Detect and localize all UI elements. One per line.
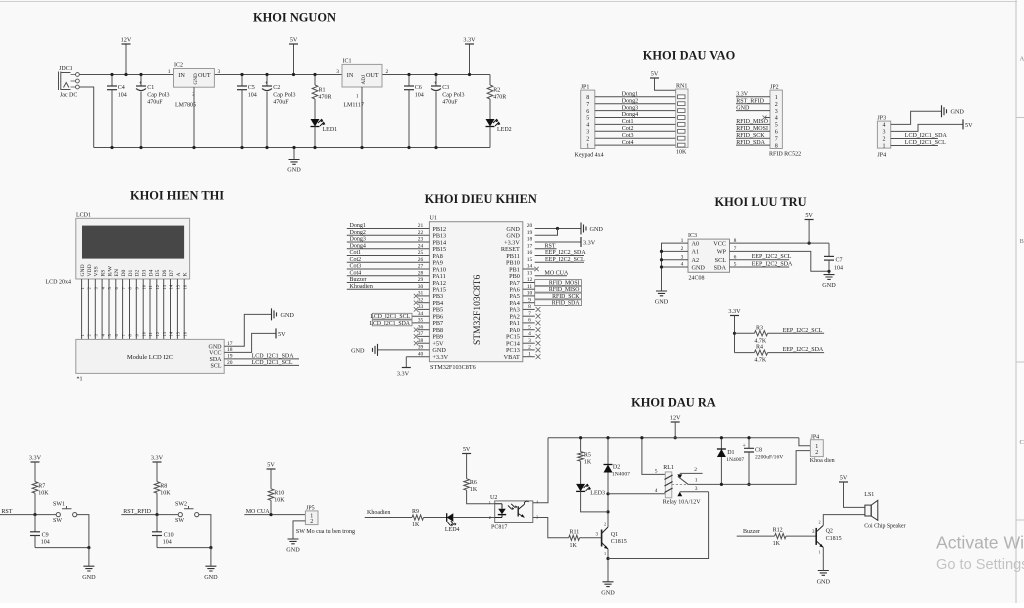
svg-text:3.3V: 3.3V	[29, 455, 42, 462]
LCD1 display module	[76, 213, 190, 280]
wire U1 GND pin 20	[535, 228, 581, 230]
capacitor C4 104	[107, 73, 127, 149]
wire LCD pin 16 to I2C module	[183, 279, 185, 339]
port RFID_SDA to U1	[523, 300, 582, 307]
wire U2 pin4 to bus	[533, 438, 548, 503]
svg-text:R4: R4	[756, 345, 763, 351]
svg-text:470R: 470R	[493, 95, 506, 101]
svg-text:Buzzer: Buzzer	[350, 277, 367, 283]
svg-text:Cot1: Cot1	[622, 119, 634, 125]
ground symbol module	[272, 308, 295, 320]
wire relay pin4	[608, 493, 665, 495]
wire JP2 net GND	[736, 110, 770, 112]
ground symbol JP5	[288, 539, 299, 544]
svg-text:3: 3	[336, 69, 339, 75]
wire LCD pin 5 to I2C module	[108, 279, 110, 339]
svg-text:ADJ: ADJ	[361, 75, 367, 85]
svg-text:GND: GND	[951, 109, 965, 116]
port LCD_I2C1_SDA to U1	[369, 320, 429, 327]
svg-text:104: 104	[415, 93, 424, 99]
wire Q1 emitter down	[607, 549, 609, 582]
svg-text:4: 4	[883, 123, 886, 129]
svg-text:JP5: JP5	[306, 505, 315, 511]
ground symbol Q1	[603, 582, 614, 587]
svg-text:EEP_I2C2_SDA: EEP_I2C2_SDA	[545, 250, 586, 256]
port RFID_MISO to U1	[523, 286, 582, 293]
wire C10 bottom to ground	[157, 547, 211, 549]
resistor R9 1K	[412, 509, 424, 528]
ground symbol C7	[824, 275, 835, 280]
wire IC3 SDA net EEP_I2C2_SDA	[730, 266, 790, 268]
wire module GND	[224, 314, 271, 346]
svg-text:1: 1	[168, 69, 171, 75]
svg-text:1K: 1K	[570, 543, 578, 549]
wire top rail segment 2	[214, 74, 342, 76]
svg-text:D1: D1	[727, 450, 734, 456]
wire Q2 collector to speaker	[823, 515, 865, 526]
svg-text:RS: RS	[101, 270, 107, 277]
svg-text:GND: GND	[209, 344, 223, 350]
svg-text:D3: D3	[142, 269, 148, 276]
wire LCD pin 1 to I2C module	[81, 279, 83, 339]
wire IC3 address pins to ground	[662, 243, 689, 291]
svg-text:KHOI DAU RA: KHOI DAU RA	[631, 396, 716, 410]
transistor Q2 C1815	[816, 520, 841, 555]
wire JP1 net Dong2	[595, 103, 677, 105]
svg-text:Dong4: Dong4	[350, 243, 366, 249]
svg-text:OUT: OUT	[366, 72, 379, 79]
wire R9 to LED4	[424, 517, 447, 519]
wire U1 left net Dong1	[347, 228, 430, 230]
svg-text:R3: R3	[756, 325, 763, 331]
svg-text:EEP_I2C2_SDA: EEP_I2C2_SDA	[783, 347, 824, 353]
no-connect U1 right pin 6	[523, 322, 535, 324]
svg-text:Cot4: Cot4	[622, 140, 634, 146]
wire U1 left net Dong3	[347, 241, 430, 243]
svg-text:GND: GND	[817, 579, 831, 586]
svg-text:R10: R10	[274, 490, 284, 496]
wire LCD pin 13 to I2C module	[163, 279, 165, 339]
svg-text:5V: 5V	[651, 71, 659, 78]
svg-text:SDA: SDA	[209, 357, 222, 363]
svg-text:Cot4: Cot4	[350, 270, 362, 276]
optocoupler U2 PC817	[489, 495, 539, 530]
svg-text:RFID_SCK: RFID_SCK	[736, 133, 765, 139]
svg-text:14: 14	[169, 284, 174, 289]
svg-text:C2: C2	[273, 85, 280, 91]
svg-text:RFID_SDA: RFID_SDA	[552, 301, 581, 307]
wire U1 PB0 net MO CUA	[535, 275, 567, 277]
svg-text:RFID_MISO: RFID_MISO	[736, 119, 768, 125]
wire U1 GND pin 39	[378, 349, 430, 351]
svg-text:12: 12	[155, 284, 160, 289]
resistor R4 4.7K	[735, 345, 768, 364]
wire IC3 WP to ground	[730, 251, 830, 271]
svg-text:D2: D2	[135, 269, 141, 276]
svg-text:104: 104	[248, 93, 257, 99]
svg-text:EEP_I2C2_SCL: EEP_I2C2_SCL	[752, 254, 792, 260]
capacitor C3 Cap Pol3 470uF	[431, 73, 464, 149]
svg-text:C: C	[1020, 439, 1024, 446]
wire U1 left net Cot2	[347, 261, 430, 263]
svg-text:SDA: SDA	[714, 264, 727, 271]
wire relay pin5 to bus	[642, 438, 665, 475]
wire C9 bottom to ground	[35, 547, 89, 549]
svg-text:EEP_I2C2_SCL: EEP_I2C2_SCL	[783, 328, 823, 334]
wire D2 branch vertical	[607, 438, 609, 465]
svg-text:470uF: 470uF	[147, 100, 163, 106]
svg-text:3: 3	[883, 130, 886, 136]
svg-text:7: 7	[775, 136, 778, 142]
wire R4 net EEP_I2C2_SDA	[768, 352, 825, 354]
svg-text:1: 1	[883, 144, 886, 150]
svg-text:C4: C4	[118, 85, 125, 91]
no-connect U1 left pin 33	[418, 308, 430, 310]
svg-text:C8: C8	[755, 448, 762, 454]
connector JP2 RFID	[769, 84, 801, 157]
wire LED4 to U2	[453, 517, 494, 519]
svg-text:RFID RC522: RFID RC522	[769, 152, 801, 158]
svg-text:1N4007: 1N4007	[612, 471, 630, 477]
wire LCD pin 7 to I2C module	[122, 279, 124, 339]
power port 3.3V U1 bottom	[397, 368, 411, 378]
svg-text:RL1: RL1	[663, 465, 674, 471]
svg-text:12: 12	[155, 331, 160, 336]
svg-text:GND: GND	[286, 547, 300, 554]
no-connect U1 left pin 38	[418, 342, 430, 344]
svg-text:EN: EN	[114, 269, 120, 276]
svg-text:2200uF/16V: 2200uF/16V	[755, 455, 783, 461]
resistor R6 1K	[464, 479, 478, 494]
svg-text:C1: C1	[147, 85, 154, 91]
wire JP2 net RFID_SCK	[736, 137, 770, 139]
svg-text:Buzzer: Buzzer	[743, 529, 760, 535]
svg-text:Khoa dien: Khoa dien	[810, 458, 835, 464]
svg-text:LCD_I2C1_SCL: LCD_I2C1_SCL	[370, 314, 410, 320]
svg-text:R2: R2	[493, 88, 500, 94]
no-connect U1 left pin 31	[418, 295, 430, 297]
wire LCD pin 12 to I2C module	[156, 279, 158, 339]
no-connect U1 right pin 7	[523, 315, 535, 317]
capacitor C1 Cap Pol3 470uF	[136, 73, 169, 149]
no-connect U1 right pin 8	[523, 308, 535, 310]
svg-text:R/W: R/W	[107, 265, 113, 276]
svg-text:2: 2	[604, 522, 606, 527]
wire JP2 net RFID_SDA	[736, 144, 770, 146]
wire JP1 net Dong1	[595, 96, 677, 98]
wire relay common to JP4 pin2	[730, 451, 810, 485]
svg-text:C10: C10	[164, 532, 174, 538]
svg-text:C1815: C1815	[826, 536, 842, 542]
ground symbol IC3	[656, 291, 667, 296]
svg-text:LCD_I2C1_SCL: LCD_I2C1_SCL	[905, 140, 946, 146]
svg-text:D0: D0	[121, 269, 127, 276]
svg-text:KHOI NGUON: KHOI NGUON	[253, 11, 336, 25]
resistor R1 470R	[312, 73, 331, 101]
svg-text:A0: A0	[692, 240, 700, 247]
connector JDC1 (Jac DC power jack)	[59, 66, 80, 99]
switch SW1	[53, 502, 77, 524]
svg-text:3.3V: 3.3V	[151, 455, 164, 462]
Module LCD I2C box	[76, 339, 224, 373]
svg-text:6: 6	[775, 130, 778, 136]
svg-text:7: 7	[586, 102, 589, 108]
svg-text:LED3: LED3	[590, 491, 605, 497]
svg-text:15: 15	[527, 257, 533, 263]
svg-text:5: 5	[775, 123, 778, 129]
wire U1 left net Buzzer	[347, 282, 430, 284]
svg-text:10: 10	[141, 331, 146, 336]
no-connect U1 right pin 1	[523, 356, 535, 358]
svg-text:4: 4	[586, 123, 589, 129]
svg-text:A: A	[176, 272, 182, 276]
wire JP2 net 3.3V	[736, 96, 770, 98]
svg-text:VCC: VCC	[713, 240, 726, 247]
svg-text:16: 16	[527, 250, 533, 256]
wire JP1 net Cot2	[595, 130, 677, 132]
svg-text:Cap Pol3: Cap Pol3	[147, 93, 169, 99]
power port 5V MO CUA	[267, 462, 276, 489]
svg-text:GND: GND	[736, 105, 750, 111]
svg-text:Q2: Q2	[826, 529, 833, 535]
wire U2 pin3 to R11	[533, 518, 569, 538]
wire JP1 net Cot3	[595, 137, 677, 139]
svg-text:SCL: SCL	[715, 257, 727, 264]
svg-text:D6: D6	[162, 269, 168, 276]
svg-text:D1: D1	[128, 269, 134, 276]
wire JP2 net RFID_MOSI	[736, 130, 770, 132]
svg-text:3.3V: 3.3V	[583, 240, 596, 247]
transistor Q1 C1815	[602, 522, 627, 557]
svg-text:GND: GND	[351, 347, 365, 354]
svg-text:5V: 5V	[278, 331, 286, 338]
svg-text:2: 2	[586, 136, 589, 142]
svg-text:470uF: 470uF	[273, 100, 289, 106]
svg-text:SW2: SW2	[175, 502, 187, 508]
power port 12V	[121, 37, 132, 77]
relay RL1 10A/12V	[608, 436, 730, 505]
wire U1 RESET net RST	[535, 248, 557, 250]
power port 5V	[289, 37, 298, 77]
svg-text:Dong1: Dong1	[350, 223, 366, 229]
svg-text:1K: 1K	[470, 487, 478, 493]
svg-text:RFID_SCK: RFID_SCK	[552, 294, 580, 300]
svg-text:11: 11	[148, 284, 153, 289]
svg-text:14: 14	[169, 331, 174, 336]
resistor R2 470R	[487, 75, 506, 101]
svg-text:A: A	[1020, 56, 1024, 63]
wire LCD pin 9 to I2C module	[135, 279, 137, 339]
svg-text:K: K	[183, 272, 189, 276]
svg-text:19: 19	[527, 230, 533, 236]
wire Q2 emitter to ground	[822, 547, 824, 570]
svg-text:1N4007: 1N4007	[726, 457, 744, 463]
svg-text:1: 1	[586, 143, 589, 149]
wire net RST_RFID	[121, 514, 178, 516]
svg-text:470uF: 470uF	[442, 100, 458, 106]
svg-text:3: 3	[775, 109, 778, 115]
resistor R7 10K	[32, 482, 49, 515]
svg-text:Khoadien: Khoadien	[367, 510, 390, 516]
wire IC3 VCC to 5V and C7	[730, 242, 830, 244]
wire U1 left net Cot3	[347, 268, 430, 270]
net label Khoadien wire	[365, 517, 412, 519]
wire net RST	[0, 514, 56, 516]
wire R11 to Q1 base	[580, 537, 602, 539]
svg-text:Khoadien: Khoadien	[350, 284, 373, 290]
svg-text:SW Mo cua tu ben trong: SW Mo cua tu ben trong	[296, 529, 355, 535]
svg-text:10K: 10K	[38, 491, 49, 497]
connector JP3 LCD cable	[877, 115, 890, 158]
svg-text:15: 15	[176, 331, 181, 336]
wire module VCC to 5V	[224, 333, 276, 352]
U1 pin names and numbers	[418, 223, 533, 361]
wire relay pin3 to Q1 emitter	[608, 492, 709, 559]
svg-text:13: 13	[162, 284, 167, 289]
svg-text:Cot3: Cot3	[350, 264, 362, 270]
wire top rail segment 3	[382, 74, 490, 76]
svg-text:Dong1: Dong1	[622, 92, 638, 98]
svg-text:3.3V: 3.3V	[397, 371, 410, 378]
svg-text:JDC1: JDC1	[59, 66, 73, 72]
svg-text:470R: 470R	[319, 95, 332, 101]
svg-text:1K: 1K	[773, 541, 781, 547]
regulator IC1 LM1117	[336, 59, 388, 150]
connector JP4 Khoa dien	[810, 435, 835, 464]
svg-text:1: 1	[489, 500, 491, 505]
svg-text:15: 15	[176, 284, 181, 289]
capacitor C9 104	[30, 515, 50, 548]
relay contact pin3	[680, 491, 709, 493]
svg-text:IC1: IC1	[343, 59, 352, 65]
wire JP3 pin4 to GND	[891, 111, 942, 124]
svg-text:104: 104	[118, 93, 127, 99]
wire U1 PB11 net EEP_I2C2_SDA	[535, 255, 584, 257]
svg-text:17: 17	[527, 243, 533, 249]
svg-text:R7: R7	[38, 484, 45, 490]
svg-text:PC817: PC817	[491, 524, 507, 530]
svg-text:MO CUA: MO CUA	[246, 509, 271, 515]
svg-text:KHOI DAU VAO: KHOI DAU VAO	[643, 49, 736, 63]
svg-text:KHOI LUU TRU: KHOI LUU TRU	[714, 195, 806, 209]
svg-text:GND: GND	[287, 167, 301, 174]
svg-text:Dong3: Dong3	[350, 237, 366, 243]
svg-text:18: 18	[527, 237, 533, 243]
power port 5V keypad pullup	[650, 71, 659, 79]
wire net MO CUA	[244, 514, 305, 516]
svg-text:2: 2	[775, 102, 778, 108]
svg-text:Jac DC: Jac DC	[60, 93, 78, 99]
wire JP1 net Cot4	[595, 144, 677, 146]
svg-text:R9: R9	[412, 509, 419, 515]
svg-text:2: 2	[883, 137, 886, 143]
no-connect U1 right pin 2	[523, 349, 535, 351]
power port 12V output block	[670, 415, 681, 440]
wire U1 GND pin 19	[535, 229, 558, 236]
power port 5V JP3	[962, 119, 964, 129]
EEPROM IC3 24C08	[681, 233, 737, 282]
svg-text:RFID_MOSI: RFID_MOSI	[549, 281, 580, 287]
svg-text:RFID_MISO: RFID_MISO	[549, 287, 580, 293]
svg-text:10: 10	[141, 284, 146, 289]
wire JP5 pin2 to ground	[293, 521, 305, 539]
wire 12V top bus	[548, 437, 799, 439]
no-connect U1 right pin 4	[523, 335, 535, 337]
resistor R10 10K	[268, 489, 285, 515]
svg-text:12V: 12V	[670, 415, 681, 422]
MCU U1 STM32F103C8T6	[429, 216, 522, 371]
svg-text:SW1: SW1	[53, 502, 65, 508]
svg-text:16: 16	[182, 284, 187, 289]
wire U1 left net Cot4	[347, 275, 430, 277]
capacitor C8 2200uF/16V	[742, 436, 783, 486]
svg-text:R8: R8	[160, 484, 167, 490]
wire JP3 pin2 LCD_I2C1_SDA	[891, 138, 938, 140]
svg-text:Coi Chip Speaker: Coi Chip Speaker	[864, 524, 905, 530]
wire R12 to Q2 base	[786, 535, 816, 537]
wire bus to JP4 pin1	[799, 438, 811, 446]
svg-text:1: 1	[604, 551, 606, 556]
svg-text:3: 3	[695, 486, 698, 492]
svg-text:8: 8	[775, 143, 778, 149]
svg-text:R1: R1	[319, 88, 326, 94]
svg-text:IC3: IC3	[688, 233, 697, 239]
wire SW1 to ground branch	[77, 515, 89, 548]
wire R6 to U2 pin1	[467, 490, 495, 504]
wire LCD pin 3 to I2C module	[94, 279, 96, 339]
wire JP2 net RST_RFID	[736, 103, 770, 105]
svg-text:Keypad 4x4: Keypad 4x4	[575, 153, 604, 159]
wire module SDA	[224, 358, 299, 360]
svg-text:GND: GND	[204, 574, 218, 581]
svg-text:LCD_I2C1_SDA: LCD_I2C1_SDA	[369, 321, 410, 327]
power port 5V IC3	[805, 212, 814, 243]
wire LCD pin 15 to I2C module	[176, 279, 178, 339]
svg-text:Dong3: Dong3	[622, 105, 638, 111]
diode D2 1N4007	[604, 464, 631, 477]
svg-text:5V: 5V	[267, 462, 275, 469]
svg-text:LED2: LED2	[497, 127, 512, 133]
svg-text:3: 3	[218, 69, 221, 75]
top window edge line	[0, 1, 1024, 3]
regulator IC2 LM7805	[168, 63, 221, 150]
resistor R3 4.7K	[735, 325, 768, 344]
svg-text:JP2: JP2	[770, 84, 779, 90]
svg-text:KHOI DIEU KHIEN: KHOI DIEU KHIEN	[425, 192, 537, 206]
svg-text:2: 2	[489, 515, 491, 520]
svg-text:2: 2	[386, 69, 389, 75]
speaker LS1 Coi Chip Speaker	[864, 492, 905, 530]
svg-text:JP4: JP4	[877, 153, 886, 159]
ground symbol power block	[287, 146, 301, 174]
sheet border vertical line	[1015, 0, 1017, 603]
svg-text:SW: SW	[53, 518, 62, 524]
svg-text:SW: SW	[175, 518, 184, 524]
svg-text:5: 5	[655, 468, 658, 474]
svg-text:GND: GND	[82, 574, 96, 581]
svg-text:4: 4	[655, 488, 658, 494]
svg-text:JP3: JP3	[877, 115, 886, 121]
svg-text:RST_RFID: RST_RFID	[123, 509, 151, 515]
svg-text:LED4: LED4	[445, 527, 460, 533]
svg-text:1: 1	[775, 95, 778, 101]
resistor R5 1K	[578, 436, 592, 465]
svg-text:2: 2	[310, 519, 313, 525]
port RFID_SCK to U1	[523, 293, 582, 300]
svg-text:5V: 5V	[290, 37, 298, 44]
svg-text:1K: 1K	[412, 522, 420, 528]
wire U1 +3.3V pin 40	[406, 356, 429, 358]
